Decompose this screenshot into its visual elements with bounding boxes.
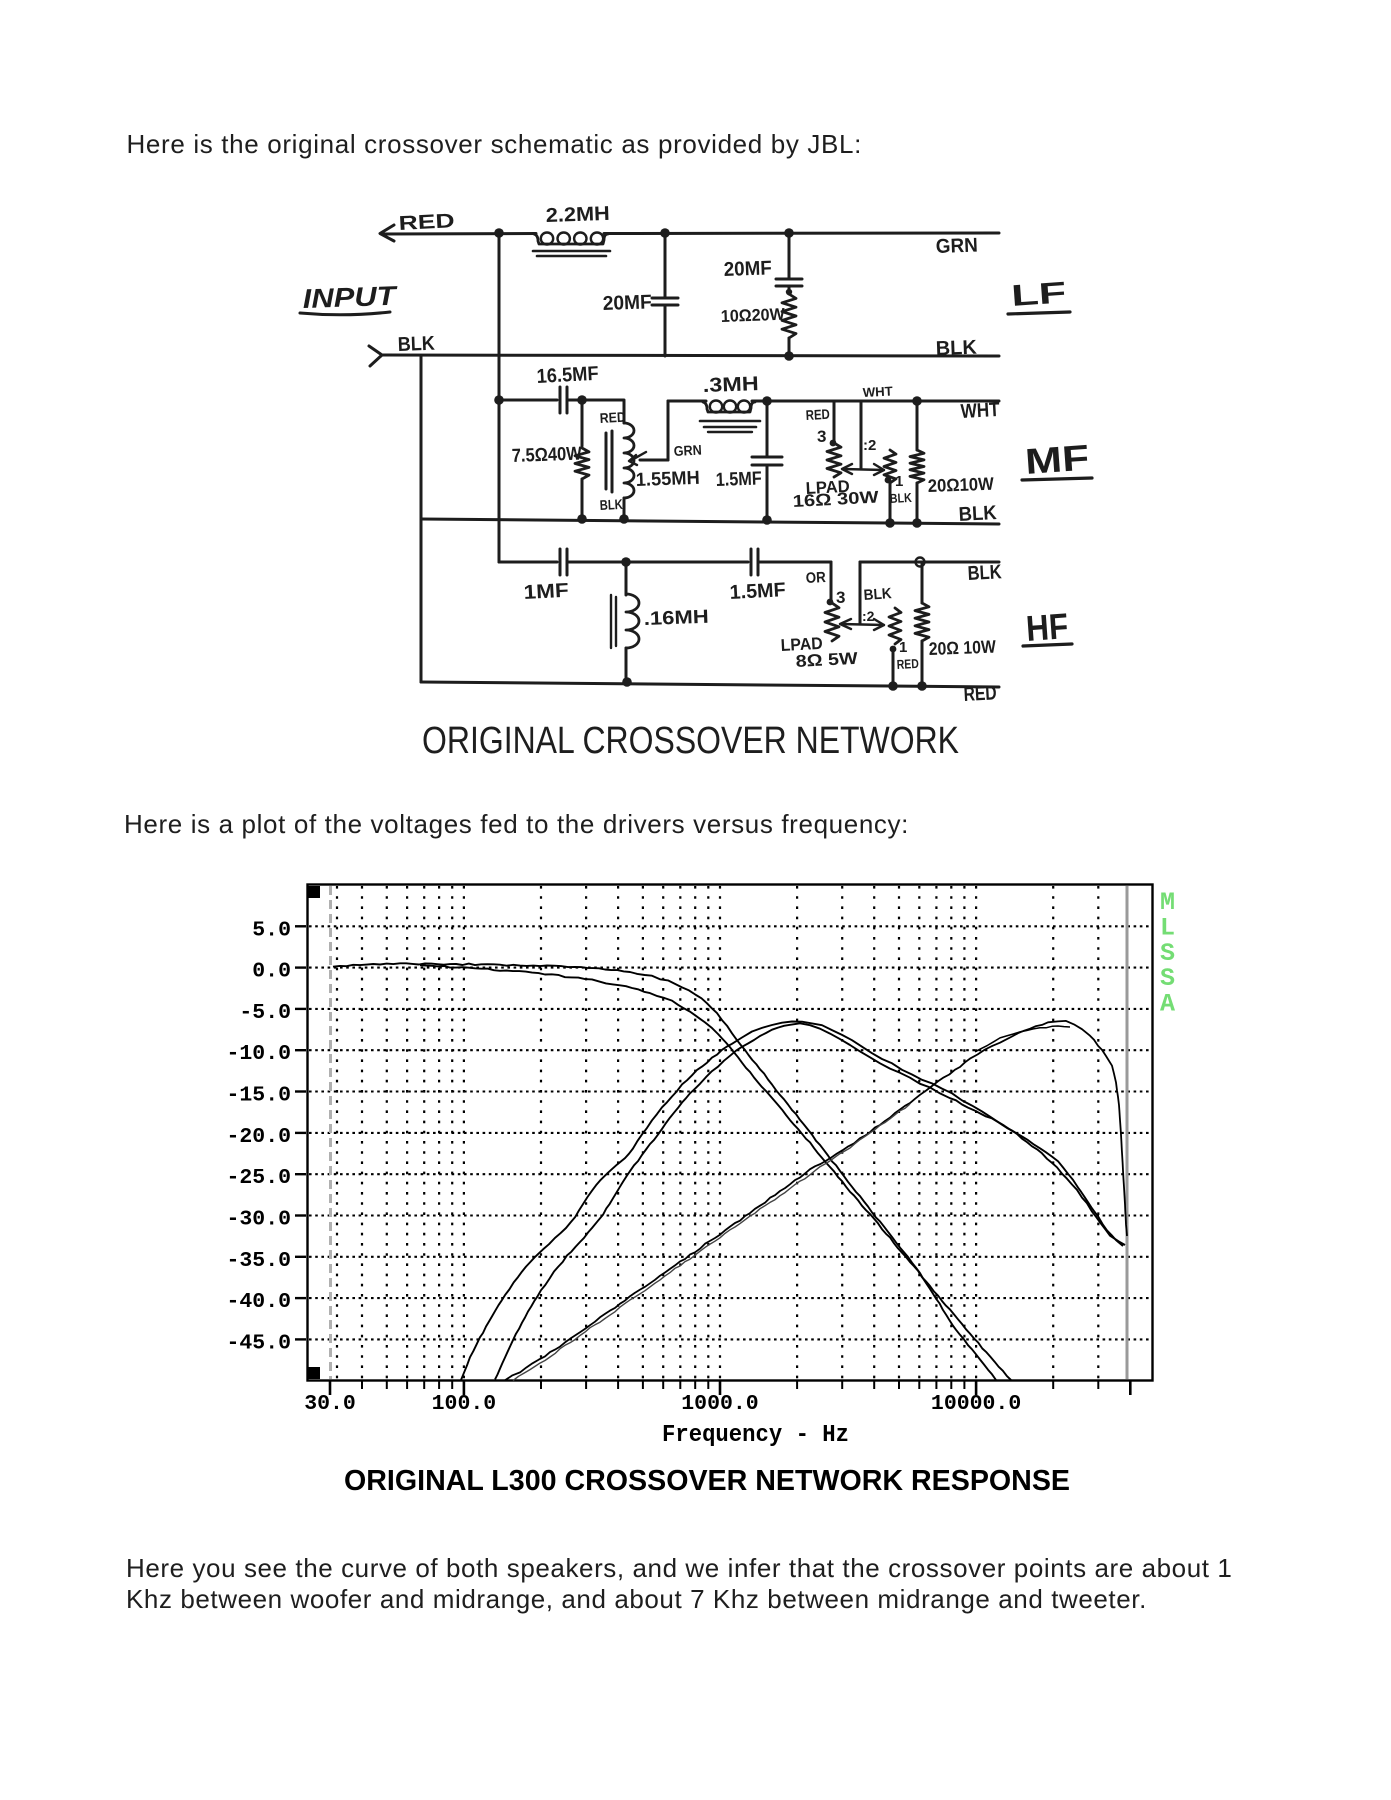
- capacitor 1.5MF (HF): [750, 549, 753, 575]
- svg-text:MF: MF: [1024, 437, 1091, 482]
- svg-text:1.5MF: 1.5MF: [729, 579, 786, 604]
- wire HF bottom rail: [421, 682, 999, 687]
- wire from tap: [640, 459, 668, 462]
- LPAD second section (MF): [884, 450, 896, 483]
- underline LF: [1008, 312, 1070, 314]
- capacitor 20MF (Zobel): [788, 233, 791, 278]
- svg-text:BLK: BLK: [935, 337, 977, 360]
- svg-text:1.5MF: 1.5MF: [715, 468, 762, 491]
- wire MF bottom rail: [421, 519, 999, 524]
- grey dashed cursor line (30 Hz): [329, 886, 332, 1379]
- svg-text:RED: RED: [896, 656, 919, 672]
- chart corner marker top-left: [308, 886, 320, 898]
- junction dot tap1 (HF): [890, 646, 897, 653]
- resistor 20ohm 10W (HF): [921, 562, 924, 603]
- input arrow (BLK): [369, 346, 382, 366]
- svg-text:100.0: 100.0: [432, 1392, 497, 1416]
- svg-text:30.0: 30.0: [304, 1392, 356, 1416]
- svg-text:.3MH: .3MH: [702, 373, 759, 397]
- svg-text:10Ω20W: 10Ω20W: [720, 305, 786, 326]
- capacitor 20MF (first shunt): [664, 233, 667, 298]
- horizontal dotted gridlines + left ticks: [309, 925, 1151, 927]
- LPAD resistor (MF): [827, 443, 841, 477]
- paragraph: intro plot: [124, 811, 909, 837]
- junction dot .16MH top: [621, 557, 631, 567]
- wire MF top: [499, 399, 557, 402]
- wire HF output top: [860, 561, 999, 564]
- tap arrow: [630, 452, 646, 461]
- svg-text:20Ω 10W: 20Ω 10W: [928, 637, 996, 659]
- junction dot tap1: [885, 477, 892, 484]
- svg-text:-15.0: -15.0: [226, 1084, 291, 1108]
- capacitor 16.5MF: [559, 387, 562, 413]
- svg-text:-10.0: -10.0: [226, 1042, 291, 1066]
- svg-text:1MF: 1MF: [523, 580, 569, 604]
- svg-text:20MF: 20MF: [723, 257, 772, 281]
- capacitor 1MF: [559, 549, 562, 575]
- junction dot MF takeoff: [494, 395, 504, 405]
- svg-text:1000.0: 1000.0: [681, 1392, 758, 1416]
- MF midrange curve (trace 1): [461, 1022, 1125, 1381]
- svg-text:3: 3: [836, 588, 845, 607]
- svg-text:20MF: 20MF: [602, 291, 652, 315]
- svg-text:-35.0: -35.0: [226, 1249, 291, 1273]
- svg-text:BLK: BLK: [967, 561, 1003, 585]
- inductor .16MH: [626, 594, 639, 648]
- svg-text:5.0: 5.0: [252, 918, 291, 942]
- LF woofer curve (trace 2): [420, 965, 1011, 1380]
- junction dot LF top: [784, 228, 794, 238]
- LPAD resistor (HF): [825, 603, 839, 641]
- svg-text:16.5MF: 16.5MF: [536, 363, 599, 388]
- svg-text:BLK: BLK: [889, 490, 912, 506]
- HF tweeter curve (main trace): [505, 1021, 1127, 1380]
- svg-text:OR: OR: [805, 569, 826, 587]
- svg-text:-45.0: -45.0: [226, 1331, 291, 1355]
- inductor 2.2MH: [534, 234, 608, 244]
- svg-text:3: 3: [817, 427, 826, 446]
- svg-text:7.5Ω40W: 7.5Ω40W: [511, 444, 582, 467]
- svg-text:HF: HF: [1025, 605, 1070, 649]
- 30 Hz dotted gridline: [336, 886, 338, 1379]
- svg-text:.16MH: .16MH: [643, 607, 709, 630]
- junction dot LPAD3: [830, 440, 837, 447]
- wire to autotransformer: [582, 399, 624, 402]
- MF midrange curve (trace 2): [495, 1023, 1123, 1379]
- junction dot RED/vertical: [494, 228, 504, 238]
- svg-text:10000.0: 10000.0: [931, 1392, 1021, 1416]
- underline HF: [1023, 644, 1072, 646]
- svg-text:8Ω 5W: 8Ω 5W: [795, 649, 859, 671]
- resistor 7.5ohm 40W: [581, 400, 584, 446]
- svg-text::2: :2: [863, 437, 876, 454]
- wire: vertical bus from RED rail down to HF: [498, 233, 501, 562]
- junction circle (HF top): [916, 558, 925, 567]
- svg-text:1: 1: [899, 639, 907, 656]
- wire tap to .3MH: [668, 400, 706, 403]
- svg-text:ORIGINAL L300 CROSSOVER NETWOR: ORIGINAL L300 CROSSOVER NETWORK RESPONSE: [344, 1465, 1070, 1497]
- LPAD wiper arrows (HF): [841, 624, 884, 625]
- wire MF to LPAD: [767, 400, 999, 403]
- autotransformer 1.55MH coil: [623, 401, 626, 423]
- svg-text:0.0: 0.0: [252, 960, 291, 984]
- bottom axis ticks: [329, 1381, 332, 1396]
- wire BLK stub (HF): [859, 562, 862, 623]
- svg-text:1: 1: [895, 473, 903, 490]
- svg-text::2: :2: [862, 608, 875, 624]
- chart corner marker bottom-left: [308, 1367, 320, 1379]
- paragraph: conclusion: [126, 1553, 1232, 1614]
- wire WHT stub: [860, 401, 863, 468]
- svg-text:BLK: BLK: [397, 333, 435, 356]
- wire down to LPAD3: [833, 401, 836, 443]
- capacitor 1.5MF (MF shunt): [766, 401, 769, 456]
- caption ORIGINAL CROSSOVER NETWORK: [410, 700, 990, 770]
- junction dot after .3MH: [762, 396, 772, 406]
- HF tweeter curve (shadow trace): [513, 1104, 910, 1381]
- svg-text:Frequency - Hz: Frequency - Hz: [662, 1422, 849, 1449]
- svg-text:INPUT: INPUT: [302, 281, 399, 314]
- wire HF top: [499, 561, 557, 564]
- svg-text:GRN: GRN: [673, 442, 702, 459]
- svg-text:LF: LF: [1010, 276, 1067, 313]
- svg-text:BLK: BLK: [958, 502, 998, 526]
- svg-text:1.55MH: 1.55MH: [635, 468, 700, 491]
- inductor .3MH: [703, 402, 755, 412]
- svg-text:RED: RED: [805, 406, 830, 423]
- resistor 20ohm 10W (MF): [912, 396, 922, 406]
- LF woofer curve (trace 1): [333, 963, 996, 1380]
- LPAD wiper arrows: [843, 469, 884, 470]
- autotransformer core lines: [605, 433, 608, 489]
- wire to 1.5MF: [626, 561, 748, 564]
- junction dot after 2.2MH: [660, 228, 670, 238]
- svg-text:-20.0: -20.0: [226, 1125, 291, 1149]
- LPAD second section (HF): [889, 608, 901, 644]
- svg-text:2.2MH: 2.2MH: [545, 203, 610, 227]
- svg-text:ORIGINAL CROSSOVER NETWORK: ORIGINAL CROSSOVER NETWORK: [422, 720, 959, 762]
- svg-text:-5.0: -5.0: [239, 1001, 291, 1025]
- vertical dotted gridlines: [361, 886, 363, 1379]
- wire down to LPAD3 (HF): [830, 562, 833, 603]
- HF tweeter curve (peak double segment): [975, 1026, 1070, 1052]
- wire: RED input top rail: [382, 232, 536, 236]
- svg-text:BLK: BLK: [599, 496, 623, 513]
- svg-text:BLK: BLK: [863, 585, 892, 604]
- junction dot LF bottom: [784, 351, 794, 361]
- svg-text:WHT: WHT: [862, 383, 893, 400]
- wire tap1 down: [889, 483, 892, 523]
- svg-text:RED: RED: [398, 210, 455, 235]
- chart border: [308, 885, 1153, 1381]
- wire: vertical bus from BLK rail down to HF bottom: [420, 356, 423, 682]
- junction dot between cap and resistor: [786, 289, 792, 295]
- underline MF: [1022, 478, 1092, 480]
- paragraph: intro schematic: [127, 131, 863, 157]
- input arrow (RED, pointing left): [380, 225, 394, 241]
- svg-text:-30.0: -30.0: [226, 1208, 291, 1232]
- grey solid line (40 kHz): [1126, 886, 1129, 1379]
- wire: BLK input rail: [383, 355, 999, 356]
- underline of INPUT: [300, 312, 390, 315]
- wire tap1 down (HF): [892, 649, 895, 686]
- junction dot after 16.5MF: [577, 395, 587, 405]
- svg-text:20Ω10W: 20Ω10W: [927, 474, 994, 496]
- svg-text:-25.0: -25.0: [226, 1166, 291, 1190]
- svg-text:A: A: [1160, 990, 1175, 1019]
- svg-text:-40.0: -40.0: [226, 1290, 291, 1314]
- resistor 10ohm 20W: [788, 286, 791, 294]
- svg-text:GRN: GRN: [935, 235, 978, 258]
- svg-text:16Ω 30W: 16Ω 30W: [792, 487, 880, 511]
- svg-text:RED: RED: [599, 409, 626, 426]
- svg-text:WHT: WHT: [960, 399, 1000, 423]
